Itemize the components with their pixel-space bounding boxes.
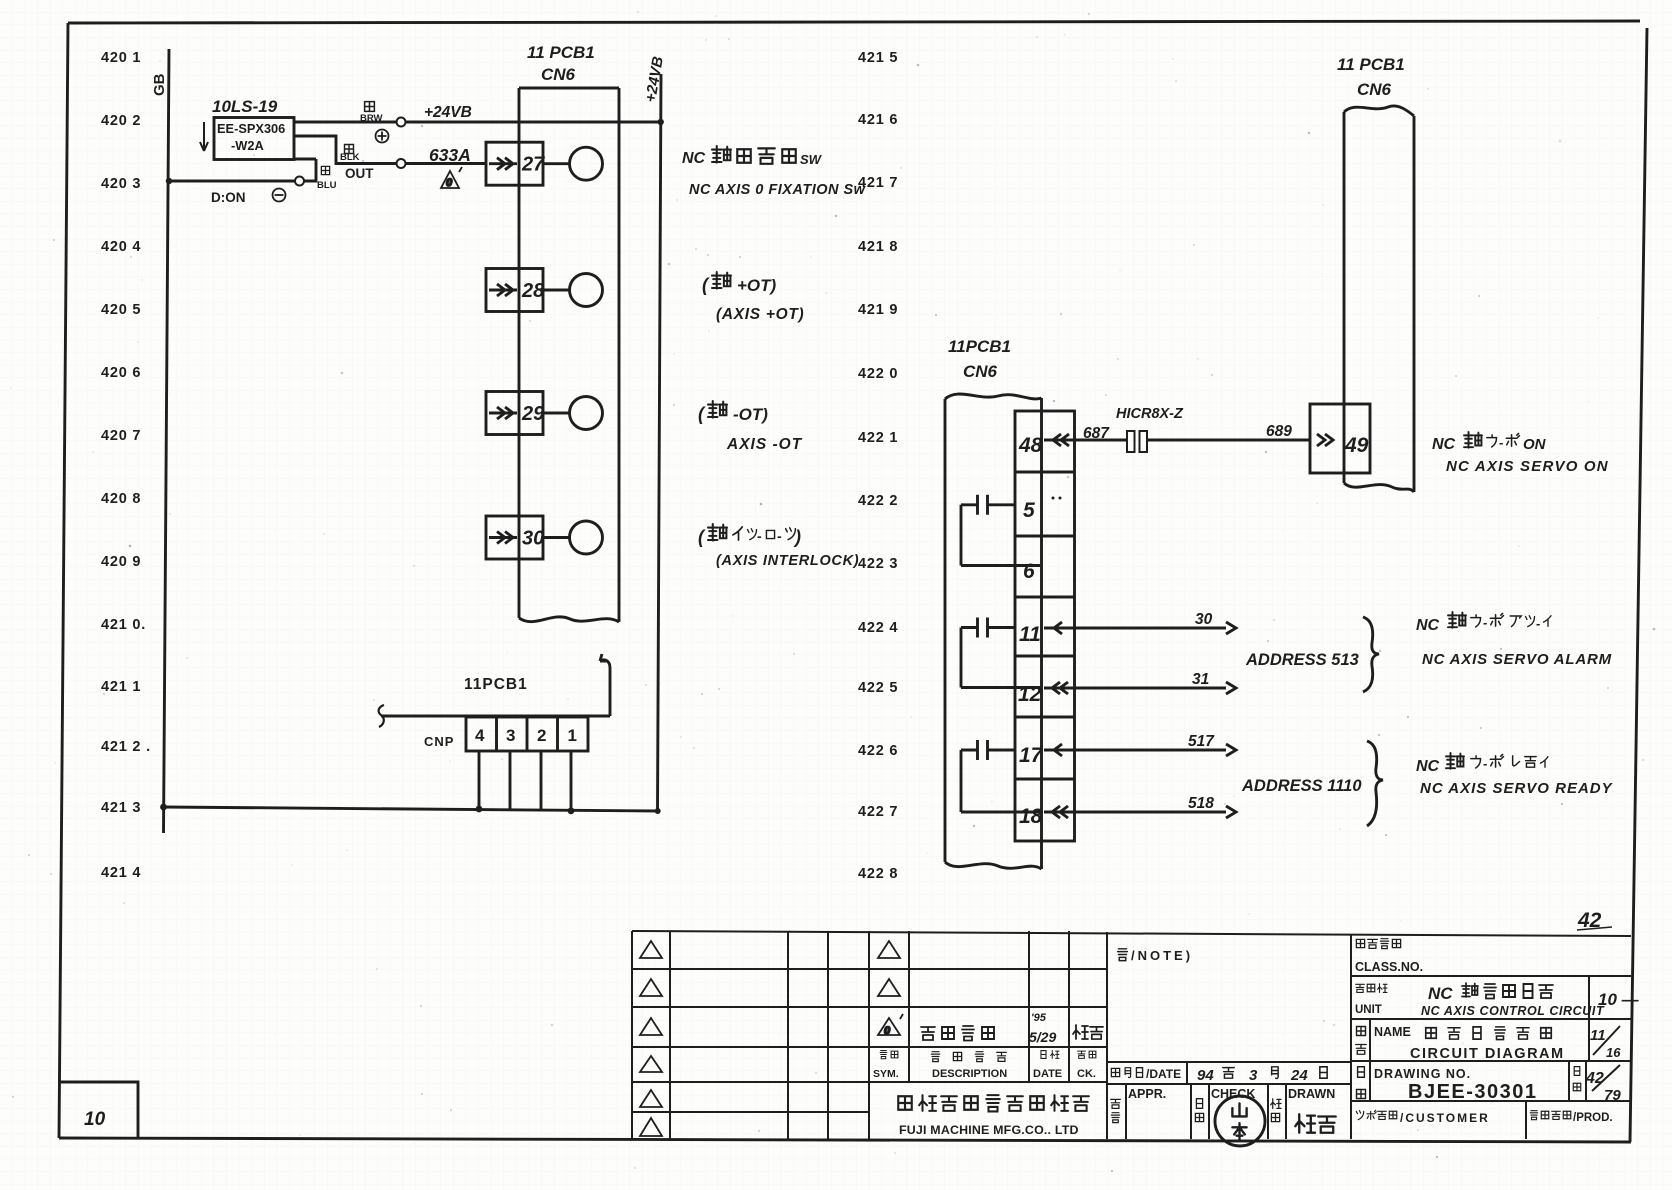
header DESCRIPTION: [931, 1052, 1007, 1080]
board label 11PCB1 (bottom): [464, 676, 528, 693]
svg-text:NAME: NAME: [1374, 1025, 1411, 1039]
revision triangle 0 (row 3): [878, 1014, 903, 1037]
drafter signature esaka: [1295, 1114, 1335, 1132]
svg-text:11 PCB1: 11 PCB1: [527, 43, 595, 62]
header DATE: [1033, 1051, 1062, 1080]
GB bus vertical line: [164, 49, 170, 833]
wire address bit 31: [1044, 682, 1236, 694]
svg-text:-: -: [777, 528, 782, 544]
svg-text:-: -: [1499, 435, 1503, 450]
svg-text:422 4: 422 4: [858, 620, 898, 636]
svg-text:3: 3: [506, 726, 515, 745]
unit value NC AXIS CONTROL CIRCUIT: [1421, 1004, 1605, 1018]
revision checker suzuki: [1073, 1025, 1103, 1039]
unit value NC axis control circuit (japanese): [1428, 983, 1553, 1003]
svg-text:NC AXIS CONTROL CIRCUIT: NC AXIS CONTROL CIRCUIT: [1421, 1004, 1605, 1018]
unit sheet 10-: [1598, 990, 1640, 1009]
wire 689 to pin 49: [1148, 434, 1333, 446]
svg-text:420 1: 420 1: [101, 50, 141, 66]
approver column: [1111, 1087, 1167, 1123]
terminal circle BRW: [397, 118, 406, 127]
label 518: [1188, 795, 1214, 812]
date row label: [1111, 1067, 1181, 1081]
label (axis +OT) japanese: [702, 272, 777, 295]
svg-text:BLU: BLU: [317, 180, 337, 191]
svg-text:420 8: 420 8: [101, 491, 141, 507]
unit row label: [1355, 984, 1387, 1016]
label 30: [1195, 611, 1213, 628]
junction dot +24VB wire: [658, 119, 664, 125]
svg-text:422 6: 422 6: [858, 743, 898, 759]
svg-text:NC: NC: [1416, 758, 1440, 775]
connector U2 pin cell column: [1015, 411, 1075, 841]
customer row label: [1356, 1110, 1490, 1125]
svg-text:420 7: 420 7: [101, 428, 141, 444]
wire 4203 BLU from GB bus: [169, 159, 316, 181]
svg-text:CK.: CK.: [1077, 1068, 1096, 1080]
label ADDRESS 1110: [1241, 777, 1362, 795]
svg-text:689: 689: [1266, 423, 1292, 440]
drawing no row label: [1357, 1067, 1472, 1099]
label OUT: [345, 166, 374, 181]
svg-text:DRAWN: DRAWN: [1288, 1087, 1335, 1101]
capacitor C3 pins 17-18: [961, 740, 1040, 812]
note cell label: [1118, 948, 1193, 963]
svg-text:422 2: 422 2: [858, 493, 898, 509]
svg-text:422 7: 422 7: [858, 804, 898, 820]
pin box 30: [486, 516, 544, 559]
svg-text:CN6: CN6: [1357, 80, 1392, 99]
svg-text:NC: NC: [682, 150, 706, 167]
checker column: [1195, 1087, 1255, 1122]
header SYM: [873, 1051, 899, 1080]
label NC axis servo ON (japanese): [1432, 432, 1547, 453]
svg-text:/PROD.: /PROD.: [1573, 1112, 1613, 1124]
label 633A: [429, 145, 471, 165]
svg-text:BJEE-30301: BJEE-30301: [1408, 1081, 1538, 1103]
svg-text:422 5: 422 5: [858, 680, 898, 696]
class no row: [1355, 939, 1423, 974]
svg-text:0: 0: [884, 1025, 891, 1037]
svg-text:31: 31: [1192, 671, 1209, 688]
label NC axis servo ready (japanese): [1416, 753, 1548, 775]
+24VB bus vertical line: [658, 74, 662, 811]
connector U1 body: [519, 88, 619, 622]
svg-text:/NOTE): /NOTE): [1131, 948, 1193, 963]
svg-text:NC: NC: [1432, 436, 1456, 453]
label 687: [1083, 425, 1110, 442]
svg-text:18: 18: [1019, 805, 1043, 828]
wire 4213 ground return: [163, 807, 658, 811]
name row label: [1356, 1025, 1411, 1054]
wire CNP pin 4 down: [478, 751, 481, 808]
wire CNP pin 1 down: [570, 751, 573, 811]
svg-text:NC AXIS 0 FIXATION Sw: NC AXIS 0 FIXATION Sw: [689, 182, 867, 198]
connector CNP pin row 4 3 2 1: [466, 717, 588, 751]
svg-text:(AXIS INTERLOCK): (AXIS INTERLOCK): [716, 553, 859, 569]
small dots next to pin 5: [1052, 497, 1062, 500]
revision record: line number correction: [921, 1026, 994, 1041]
plus terminal symbol: [376, 130, 389, 143]
svg-text:ON: ON: [1523, 436, 1547, 453]
date value 94-3-24: [1197, 1067, 1327, 1084]
svg-text:NC AXIS SERVO READY: NC AXIS SERVO READY: [1420, 780, 1614, 797]
svg-text:DATE: DATE: [1033, 1068, 1062, 1080]
svg-text:421 1: 421 1: [101, 679, 141, 695]
connector U2 body: [945, 394, 1042, 869]
svg-text:30: 30: [1195, 611, 1213, 628]
svg-text:CN6: CN6: [963, 362, 998, 381]
svg-text:517: 517: [1188, 733, 1215, 750]
svg-text:CIRCUIT DIAGRAM: CIRCUIT DIAGRAM: [1410, 1046, 1565, 1062]
label 517: [1188, 733, 1215, 750]
svg-text:-: -: [757, 528, 762, 544]
svg-text:11: 11: [1019, 623, 1041, 646]
brace for address 513: [1363, 617, 1379, 692]
pin box 49: [1310, 404, 1370, 473]
svg-text:GB: GB: [151, 73, 168, 96]
indicator circle for pin 27: [543, 147, 603, 180]
wire CNP pin 2 down: [540, 751, 543, 811]
company name english: [899, 1123, 1079, 1137]
svg-text:48: 48: [1018, 434, 1043, 457]
svg-text:10 —: 10 —: [1598, 990, 1640, 1009]
svg-text:-: -: [1483, 756, 1487, 771]
sheet number box 10: [60, 1082, 138, 1138]
header CK: [1077, 1051, 1096, 1080]
svg-text:421 5: 421 5: [858, 50, 898, 66]
capacitor C2 pins 11-12: [961, 618, 1040, 688]
svg-text:28: 28: [521, 280, 545, 302]
connector U3 body: [1344, 106, 1414, 492]
label brown BRW: [360, 102, 383, 124]
label (AXIS +OT): [716, 306, 804, 323]
svg-text:30: 30: [522, 528, 544, 550]
svg-text:-W2A: -W2A: [231, 138, 264, 153]
indicator circle for pin 30: [543, 521, 603, 554]
series capacitor HICR8X-Z plates: [1127, 431, 1147, 452]
svg-text:CNP: CNP: [424, 734, 454, 749]
svg-text:11PCB1: 11PCB1: [948, 337, 1011, 356]
svg-text:421 2 .: 421 2 .: [101, 739, 151, 755]
svg-text:FUJI MACHINE MFG.CO.. LTD: FUJI MACHINE MFG.CO.. LTD: [899, 1123, 1079, 1137]
svg-text:420 6: 420 6: [101, 365, 141, 381]
wire address bit 518: [1044, 806, 1236, 818]
revision triangle 0': [441, 167, 462, 189]
svg-text:-OT): -OT): [733, 405, 768, 424]
label (axis -OT) japanese: [698, 401, 768, 424]
svg-text:4: 4: [475, 726, 485, 745]
pin box 29: [486, 392, 545, 435]
svg-text:11 PCB1: 11 PCB1: [1337, 55, 1405, 74]
+24VB rotated label: [642, 55, 667, 104]
svg-text:1: 1: [568, 726, 577, 745]
svg-text:687: 687: [1083, 425, 1110, 442]
svg-text:17: 17: [1019, 744, 1044, 767]
name sheet 11/16: [1590, 1026, 1621, 1060]
svg-text:BRW: BRW: [360, 113, 383, 124]
terminal circle OUT: [397, 159, 406, 168]
junction dot on GB bus: [166, 178, 172, 184]
label 689: [1266, 423, 1292, 440]
handwritten page 42 top right: [1577, 909, 1612, 932]
svg-text:421 6: 421 6: [858, 112, 898, 128]
svg-text:-: -: [1483, 615, 1487, 630]
svg-text:D:ON: D:ON: [211, 190, 246, 205]
minus terminal symbol: [273, 189, 286, 202]
photo sensor EE-SPX306-W2A: [214, 118, 316, 160]
label NC AXIS SERVO ON: [1446, 458, 1609, 475]
svg-text:NC AXIS SERVO ON: NC AXIS SERVO ON: [1446, 458, 1609, 475]
connector U2 11PCB1 CN6 label: [948, 337, 1011, 381]
revision triangles left column: [640, 941, 662, 1136]
svg-text:+24VB: +24VB: [424, 104, 472, 121]
label (AXIS INTERLOCK): [716, 553, 859, 569]
down arrow beside sensor: [200, 122, 208, 151]
svg-text:420 9: 420 9: [101, 554, 141, 570]
board edge up arrow: [600, 654, 610, 716]
name value denki kairo zu (japanese spaced): [1426, 1027, 1552, 1040]
svg-text:79: 79: [1604, 1087, 1621, 1104]
middle ladder line numbers 4215-4228: [858, 50, 898, 882]
checker stamp yamamoto: [1215, 1096, 1265, 1146]
svg-text:6: 6: [1023, 560, 1035, 583]
svg-text:NC: NC: [1428, 984, 1453, 1003]
svg-text:3: 3: [1249, 1067, 1258, 1084]
svg-text:421 8: 421 8: [858, 239, 898, 255]
revision triangles right column: [878, 941, 900, 996]
svg-text:42: 42: [1585, 1070, 1604, 1087]
company name fuji machine: [898, 1095, 1089, 1111]
svg-text:2: 2: [537, 726, 546, 745]
svg-text:CLASS.NO.: CLASS.NO.: [1355, 960, 1423, 974]
wire 687 from pin 48: [1044, 434, 1126, 446]
svg-text:NC AXIS SERVO ALARM: NC AXIS SERVO ALARM: [1422, 651, 1612, 668]
left ladder line numbers 4201-4214: [101, 50, 151, 881]
label HICR8X-Z: [1116, 406, 1184, 422]
svg-text:CN6: CN6: [541, 65, 576, 84]
junction dot pin1/4213: [568, 807, 575, 814]
svg-text:11: 11: [1590, 1027, 1606, 1044]
svg-text:421 0.: 421 0.: [101, 617, 146, 633]
svg-text:(AXIS +OT): (AXIS +OT): [716, 306, 804, 323]
terminal circle BLU: [295, 177, 304, 186]
connector U1 11PCB1 CN6 label: [527, 43, 595, 84]
label black BLK: [340, 145, 360, 164]
connector U3 11PCB1 CN6 label: [1337, 55, 1405, 99]
svg-text:422 3: 422 3: [858, 556, 898, 572]
connector CNP label: [424, 734, 454, 749]
drawing number BJEE-30301: [1408, 1081, 1538, 1103]
label AXIS -OT: [726, 436, 803, 453]
svg-text:/DATE: /DATE: [1146, 1067, 1181, 1081]
revision date '95 5/29: [1029, 1012, 1056, 1045]
brace for address 1110: [1367, 741, 1383, 826]
svg-text:420 2: 420 2: [101, 113, 141, 129]
svg-text:420 4: 420 4: [101, 239, 141, 255]
pin box 28: [486, 269, 545, 312]
indicator circle for pin 28: [543, 274, 603, 307]
svg-text:SYM.: SYM.: [873, 1068, 899, 1080]
svg-text:5/29: 5/29: [1029, 1029, 1056, 1045]
svg-text:/CUSTOMER: /CUSTOMER: [1400, 1111, 1490, 1125]
svg-text:APPR.: APPR.: [1128, 1087, 1166, 1101]
svg-text:0: 0: [446, 177, 453, 189]
svg-text:29: 29: [521, 403, 545, 425]
svg-text:422 0: 422 0: [858, 366, 898, 382]
label ADDRESS 513: [1245, 651, 1359, 669]
svg-text:422 1: 422 1: [858, 430, 898, 446]
svg-text:10: 10: [84, 1109, 106, 1130]
label NC axis servo alarm (japanese): [1416, 612, 1551, 634]
svg-text:422 8: 422 8: [858, 866, 898, 882]
svg-text:633A: 633A: [429, 145, 471, 165]
svg-text:DESCRIPTION: DESCRIPTION: [932, 1068, 1007, 1080]
junction dot pin4/4213: [476, 806, 483, 813]
svg-text:420 3: 420 3: [101, 176, 141, 192]
svg-text:421 4: 421 4: [101, 865, 141, 881]
sensor label 10LS-19: [212, 97, 278, 116]
board edge line with break squiggle: [379, 705, 610, 727]
wire +24VB from sensor to bus: [294, 121, 659, 124]
svg-text:16: 16: [1606, 1045, 1621, 1060]
svg-text:420 5: 420 5: [101, 302, 141, 318]
label NC axis 0 fixation SW (japanese): [682, 146, 823, 167]
page 42/79: [1585, 1065, 1621, 1104]
label NC AXIS SERVO ALARM: [1422, 651, 1612, 668]
svg-text:94: 94: [1197, 1067, 1214, 1084]
label D:ON: [211, 190, 246, 205]
svg-text:421 9: 421 9: [858, 302, 898, 318]
svg-text:421 3: 421 3: [101, 800, 141, 816]
indicator circle for pin 29: [543, 397, 603, 430]
title block grid: [632, 931, 1631, 1139]
prod row label: [1530, 1111, 1612, 1124]
label blue BLU: [317, 166, 337, 191]
label 31: [1192, 671, 1209, 688]
svg-text:OUT: OUT: [345, 166, 374, 181]
label +24VB: [424, 104, 472, 121]
svg-text:AXIS -OT: AXIS -OT: [726, 436, 803, 453]
svg-text:49: 49: [1344, 434, 1369, 457]
svg-text:EE-SPX306: EE-SPX306: [217, 121, 285, 136]
svg-text:24: 24: [1290, 1067, 1308, 1084]
svg-text:11PCB1: 11PCB1: [464, 676, 528, 693]
svg-text:DRAWING NO.: DRAWING NO.: [1374, 1067, 1471, 1081]
svg-text:SW: SW: [800, 152, 823, 167]
pin numbers 48 5 6 11 12 17 18: [1018, 434, 1044, 828]
drafter column: [1271, 1087, 1336, 1122]
svg-text:UNIT: UNIT: [1355, 1004, 1382, 1016]
svg-text:+OT): +OT): [737, 276, 777, 295]
wire CNP pin 3 down: [509, 751, 512, 809]
svg-text:5: 5: [1023, 499, 1035, 522]
svg-text:10LS-19: 10LS-19: [212, 97, 278, 116]
capacitor C1 pins 5-6: [961, 495, 1040, 566]
svg-text:-: -: [1536, 616, 1540, 631]
junction dot +24VB/4213: [655, 808, 661, 814]
svg-text:ADDRESS 1110: ADDRESS 1110: [1241, 777, 1362, 795]
label NC AXIS 0 FIXATION Sw: [689, 182, 867, 198]
page col labels: [1573, 1067, 1581, 1091]
wire address bit 517: [1044, 744, 1236, 756]
name value CIRCUIT DIAGRAM: [1410, 1046, 1565, 1062]
junction dot GB/4213: [160, 804, 167, 811]
svg-text:518: 518: [1188, 795, 1214, 812]
GB label: [151, 73, 168, 96]
label NC AXIS SERVO READY: [1420, 780, 1614, 797]
svg-text:NC: NC: [1416, 617, 1440, 634]
label (axis interlock) japanese: [698, 524, 801, 547]
pin box 27: [486, 142, 545, 185]
svg-text:'95: '95: [1031, 1012, 1047, 1024]
svg-text:27: 27: [521, 154, 545, 176]
svg-text:HICR8X-Z: HICR8X-Z: [1116, 406, 1184, 422]
wire address bit 30: [1044, 622, 1236, 634]
svg-text:BLK: BLK: [340, 152, 360, 163]
svg-text:): ): [793, 527, 801, 547]
svg-text:ADDRESS 513: ADDRESS 513: [1245, 651, 1359, 669]
wire OUT 633A to pin 27: [294, 136, 486, 164]
